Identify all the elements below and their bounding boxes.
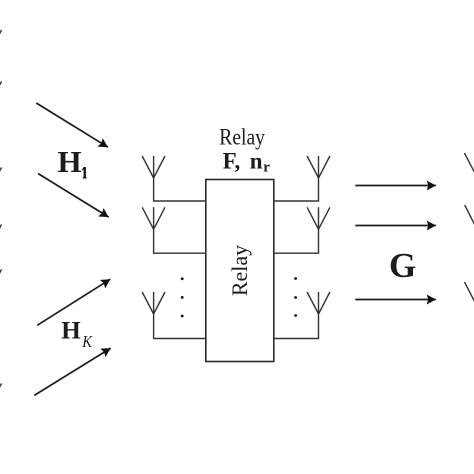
- relay antenna R3: [274, 292, 330, 339]
- arrow G-1: [355, 185, 436, 187]
- destination antenna stub D2 (right edge): [465, 205, 474, 227]
- relay antenna R1: [274, 156, 330, 201]
- arrow G-3: [355, 299, 436, 301]
- source antenna stub S4 (left edge): [0, 224, 2, 245]
- arrow HK-lower: [34, 348, 110, 395]
- relay antenna R2: [274, 207, 330, 253]
- destination antenna stub D1 (right edge): [464, 153, 474, 175]
- arrow H1-lower: [38, 174, 109, 218]
- dots right column: [294, 277, 297, 317]
- source antenna stub S3 (left edge): [0, 167, 2, 188]
- svg-text:n: n: [250, 149, 263, 174]
- arrow HK-upper: [37, 279, 110, 325]
- relay antenna L1: [142, 156, 206, 201]
- svg-text:G: G: [389, 246, 416, 285]
- destination antenna stub D3 (right edge): [465, 282, 474, 304]
- arrow H1-upper: [36, 103, 108, 147]
- source antenna stub S6 (left edge): [0, 383, 2, 404]
- source antenna stub S1 (left edge): [0, 30, 2, 51]
- relay box: [206, 180, 274, 362]
- svg-text:H: H: [58, 144, 82, 179]
- svg-text:Relay: Relay: [219, 125, 265, 150]
- svg-text:Relay: Relay: [227, 245, 252, 296]
- arrow G-2: [355, 225, 436, 227]
- relay antenna L2: [142, 207, 206, 253]
- svg-text:r: r: [263, 160, 270, 176]
- dots left column: [181, 277, 184, 317]
- source antenna stub S5 (left edge): [0, 269, 2, 290]
- relay antenna L3: [142, 292, 206, 339]
- svg-text:H: H: [61, 318, 81, 345]
- svg-text:K: K: [81, 332, 93, 351]
- svg-text:F,: F,: [223, 149, 241, 174]
- source antenna stub S2 (left edge): [0, 82, 2, 103]
